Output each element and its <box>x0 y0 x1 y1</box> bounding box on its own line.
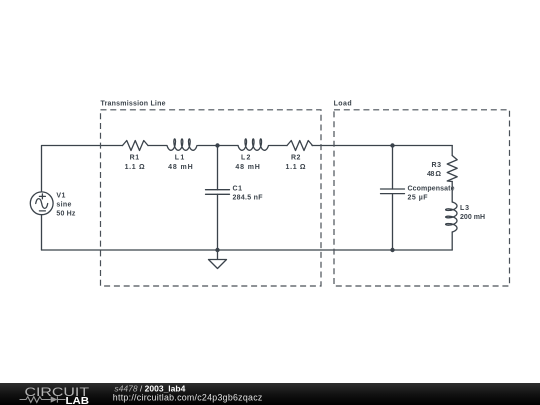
svg-text:R1: R1 <box>130 155 140 162</box>
voltage source V1 circle <box>30 192 53 215</box>
inductor L2 <box>238 139 269 150</box>
CircuitLab logo LAB text <box>66 396 90 405</box>
Transmission Line dashed box <box>101 110 322 286</box>
footer bar <box>0 383 540 405</box>
svg-text:200 mH: 200 mH <box>460 214 485 221</box>
svg-text:Load: Load <box>334 101 352 108</box>
svg-text:1.1 Ω: 1.1 Ω <box>286 164 306 171</box>
svg-text:Transmission Line: Transmission Line <box>101 101 166 108</box>
svg-text:Ccompensate: Ccompensate <box>408 186 455 193</box>
svg-text:http://circuitlab.com/c24p3gb6: http://circuitlab.com/c24p3gb6zqacz <box>113 393 262 403</box>
node at Ccompensate top <box>390 143 394 147</box>
capacitor C1 plates <box>206 190 230 195</box>
Ccompensate labels <box>408 186 455 202</box>
V1 value labels <box>56 193 76 218</box>
resistor R2 <box>287 141 313 151</box>
Transmission Line box label <box>101 101 166 108</box>
R1 labels <box>125 155 145 171</box>
svg-text:sine: sine <box>56 202 71 209</box>
wire top rail L1-node-L2 <box>198 145 238 147</box>
capacitor Ccompensate plates <box>381 189 405 194</box>
wire Ccompensate branch bottom <box>392 194 394 250</box>
resistor R3 <box>447 156 457 182</box>
L3 labels <box>460 205 485 221</box>
svg-text:48 mH: 48 mH <box>168 164 193 171</box>
node at Ccompensate bottom <box>390 248 394 252</box>
wire right branch L3 to bottom rail <box>451 232 453 250</box>
wire right branch top (corner to R3) <box>451 146 453 156</box>
svg-text:1.1 Ω: 1.1 Ω <box>125 164 145 171</box>
wire C1 branch top <box>217 146 219 190</box>
svg-text:48 Ω: 48 Ω <box>427 171 441 178</box>
wire top rail left (V1 to R1) <box>42 146 123 251</box>
svg-text:V1: V1 <box>56 193 65 200</box>
R2 labels <box>286 155 306 171</box>
L1 labels <box>168 155 193 171</box>
svg-text:48 mH: 48 mH <box>235 164 260 171</box>
R3 labels <box>427 162 441 178</box>
wire C1 branch bottom <box>217 194 219 250</box>
L2 labels <box>235 155 260 171</box>
resistor R1 <box>123 141 149 151</box>
footer title text <box>113 383 262 402</box>
svg-text:25 µF: 25 µF <box>408 195 429 202</box>
svg-text:284.5 nF: 284.5 nF <box>233 195 264 202</box>
Load box label <box>334 101 352 108</box>
C1 labels <box>233 186 264 202</box>
inductor L3 <box>446 202 457 232</box>
svg-text:LAB: LAB <box>66 396 90 405</box>
svg-text:C1: C1 <box>233 186 243 193</box>
svg-text:L1: L1 <box>175 155 185 162</box>
wire Ccompensate branch top <box>392 146 394 190</box>
inductor L1 <box>167 139 197 150</box>
wire top rail R2 to right corner <box>312 145 452 147</box>
svg-text:50 Hz: 50 Hz <box>56 211 76 218</box>
ground <box>209 250 227 269</box>
CircuitLab logo resistor-diode symbol <box>20 396 66 402</box>
wire top rail L2-R2 <box>270 145 288 147</box>
wire right branch R3-L3 <box>451 182 453 203</box>
node at C1 bottom <box>215 248 219 252</box>
node at C1 top <box>215 143 219 147</box>
svg-text:R3: R3 <box>432 162 442 169</box>
wire top rail R1-L1 <box>148 145 167 147</box>
svg-text:R2: R2 <box>291 155 301 162</box>
svg-text:L3: L3 <box>460 205 469 212</box>
CircuitLab logo CIRCUIT text <box>25 385 90 399</box>
Load dashed box <box>334 110 510 286</box>
wire bottom rail <box>42 249 453 251</box>
svg-text:L2: L2 <box>241 155 251 162</box>
